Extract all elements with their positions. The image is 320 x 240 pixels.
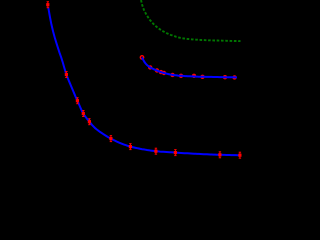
data point square S5 with error bar xyxy=(88,119,91,125)
data point square S8 with error bar xyxy=(154,148,157,154)
data point circle C6 xyxy=(170,73,174,77)
data point square S9 with error bar xyxy=(174,150,177,156)
data point circle C2 xyxy=(148,65,152,69)
data point square S2 with error bar xyxy=(65,72,68,78)
blue curve lower (ground state) xyxy=(48,7,241,155)
data point ring C1 xyxy=(140,56,143,59)
data point square S6 with error bar xyxy=(109,136,112,142)
data point circle C9 xyxy=(200,75,204,79)
data point square S3 with error bar xyxy=(76,98,79,104)
blue curve upper (excited state) xyxy=(142,57,237,77)
data point circle C4 xyxy=(159,70,163,74)
data point circle C11 xyxy=(232,75,236,79)
data point square S11 with error bar xyxy=(238,152,241,158)
data point circle C5 xyxy=(162,71,166,75)
data point circle C10 xyxy=(223,75,227,79)
data point square S7 with error bar xyxy=(129,144,132,150)
data point square S4 with error bar xyxy=(82,111,85,117)
data point square S1 with error bar xyxy=(46,2,49,8)
data point circle C8 xyxy=(192,74,196,78)
green dashed curve (upper potential) xyxy=(141,0,241,41)
data point circle C7 xyxy=(179,74,183,78)
data point square S10 with error bar xyxy=(218,152,221,158)
data point circle C3 xyxy=(155,68,159,72)
